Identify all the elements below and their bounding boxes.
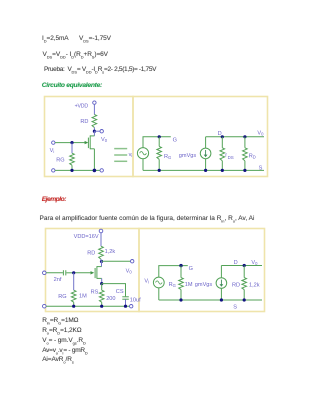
frame box 2 left (amplificador fuente comun): [46, 229, 140, 312]
wire CS to bottom rail: [125, 299, 127, 306]
result line 3: [42, 337, 86, 345]
node bottom source: [93, 169, 97, 173]
wire input to gate node: [55, 142, 72, 144]
resistor RD (circuit 1): [92, 115, 97, 128]
wire D rail (circuit 2 model): [221, 265, 262, 267]
wire RD to drain node: [100, 259, 102, 261]
node bottom vi/RG: [158, 169, 161, 172]
result line 5: [42, 356, 74, 364]
wire Vi plus to G rail: [159, 266, 188, 278]
wire RD to drain node: [93, 128, 95, 132]
wire gmVgs top stub: [205, 137, 207, 148]
svg-text:S: S: [259, 165, 263, 171]
svg-text:V0: V0: [101, 137, 108, 143]
resistor RS: [99, 290, 104, 302]
node drain (circuit 2): [100, 260, 103, 263]
wire bottom rail S (circuit 2 model): [159, 299, 262, 301]
node G (circuit 2 model): [179, 264, 182, 267]
node bottom RG: [72, 305, 75, 308]
wire gate (circuit 2): [74, 272, 92, 274]
svg-text:RG: RG: [164, 154, 171, 160]
wire RS to bottom rail: [101, 302, 103, 306]
svg-text:RD: RD: [87, 250, 95, 256]
wire input to C1: [46, 272, 63, 274]
wire drain node to output terminal: [102, 260, 131, 262]
node bottom RG: [179, 298, 182, 301]
svg-text:V0: V0: [257, 130, 264, 136]
terminal V0 output (circuit 1): [100, 130, 103, 133]
frame box 2 right (modelo de pequena senal): [139, 229, 265, 312]
wire drain: [101, 261, 103, 266]
terminal bottom left (circuit 1): [52, 169, 55, 172]
wire VDD to RD: [100, 233, 102, 246]
svg-text:Vi: Vi: [144, 279, 149, 285]
source Vi (circuit 2 model): [153, 277, 164, 288]
result line 1: [42, 317, 78, 325]
svg-text:RG: RG: [58, 294, 66, 300]
node gate (circuit 1): [70, 141, 73, 144]
svg-text:RD: RD: [249, 154, 256, 160]
wire source to ground rail: [93, 149, 95, 171]
wire rDS top stub: [221, 137, 223, 148]
wire RD top stub: [243, 266, 245, 278]
transistor Q1 (NMOS): [88, 135, 94, 149]
terminal bottom left (circuit 2): [43, 304, 47, 308]
svg-text:RG: RG: [169, 282, 176, 288]
wire bottom rail (circuit 1): [55, 169, 100, 171]
svg-text:V0: V0: [126, 269, 133, 275]
terminal input (circuit 2): [43, 271, 47, 275]
dependent source gmVgs (circuit 1 model): [200, 148, 211, 159]
node D RD: [243, 135, 246, 138]
svg-text:RS: RS: [91, 289, 99, 295]
svg-text:+VDD: +VDD: [75, 104, 89, 110]
node gmVgs bottom: [204, 169, 207, 172]
svg-text:RD: RD: [232, 282, 240, 288]
resistor rDS: [220, 148, 225, 161]
svg-text:vi: vi: [129, 152, 133, 158]
wire RG to bottom rail: [71, 165, 73, 170]
wire C1 to gate node: [66, 272, 73, 274]
wire gmVgs bottom stub: [220, 288, 222, 300]
wire RG bottom stub: [158, 159, 160, 170]
node bottom RG: [70, 169, 73, 172]
wire gmVgs bottom stub: [205, 159, 207, 171]
terminal Vi input (circuit 1): [52, 141, 55, 144]
node source (circuit 2): [100, 282, 103, 285]
text line 1a: [42, 35, 69, 43]
svg-text:1M: 1M: [185, 282, 193, 288]
wire RG bottom stub: [180, 290, 182, 300]
resistor RG (circuit 2): [71, 290, 76, 302]
wire gmVgs top stub to D rail: [220, 266, 222, 278]
svg-text:S: S: [233, 305, 237, 311]
svg-text:CS: CS: [116, 289, 124, 295]
wire gate (circuit 1): [72, 142, 86, 144]
terminal V0 (circuit 2): [131, 260, 134, 263]
svg-text:D: D: [234, 260, 238, 266]
resistor RD (circuit 2): [99, 246, 104, 259]
frame box 1 right (modelo de pequena senal): [133, 97, 268, 177]
wire drain: [93, 131, 95, 136]
wire rDS bottom stub: [221, 161, 223, 171]
node D RD: [243, 264, 246, 267]
text line 1b: [79, 35, 111, 43]
result line 2: [42, 327, 81, 335]
svg-text:200: 200: [106, 296, 115, 302]
node drain/output (circuit 1): [93, 130, 96, 133]
wire source node to CS: [102, 284, 126, 297]
svg-text:VDD=16V: VDD=16V: [74, 234, 99, 240]
text line 2: [43, 51, 108, 59]
terminal VDD (circuit 2): [99, 229, 103, 233]
heading Ejemplo: [42, 196, 66, 204]
node RD bottom: [243, 169, 246, 172]
resistor RD (circuit 1 model): [243, 148, 248, 161]
wire RD bottom stub: [244, 161, 246, 171]
heading Circuito equivalente: [42, 82, 102, 90]
wire gate node to RG: [73, 273, 75, 290]
terminal bottom right (circuit 2): [130, 305, 133, 308]
node rDS bottom: [221, 169, 224, 172]
resistor RG (circuit 1 model): [157, 146, 162, 159]
capacitor CS: [122, 297, 129, 299]
svg-text:RG: RG: [56, 157, 64, 163]
resistor RG (circuit 2 model): [179, 278, 184, 290]
wire gate node to RG: [71, 143, 73, 154]
node bottom RS: [100, 305, 103, 308]
wire RG top stub: [180, 266, 182, 278]
dependent source gmVgs (circuit 2 model): [216, 278, 227, 289]
wire RG to bottom rail: [73, 302, 75, 306]
wire VDD to RD: [93, 104, 95, 114]
svg-text:RD: RD: [80, 119, 88, 125]
svg-text:DS: DS: [228, 155, 234, 160]
wire source: [101, 278, 103, 283]
node bottom CS: [124, 305, 127, 308]
equivalence sign: [114, 149, 127, 162]
svg-text:G: G: [173, 138, 177, 144]
resistor RG (circuit 1): [70, 153, 75, 165]
wire bottom rail S (circuit 1 model): [143, 169, 264, 171]
wire Vi minus to bottom rail: [158, 288, 160, 300]
svg-text:Vi: Vi: [50, 148, 55, 154]
node RD bottom: [243, 298, 246, 301]
capacitor C1 2nf: [63, 270, 65, 275]
svg-text:2nf: 2nf: [54, 277, 62, 283]
wire source node to RS: [101, 284, 103, 291]
node D rDS: [221, 135, 224, 138]
frame box 1 left (circuito equivalente, esquema): [45, 97, 134, 177]
node gmVgs bottom: [220, 298, 223, 301]
gate arrowhead: [85, 141, 89, 144]
svg-text:10uf: 10uf: [130, 297, 141, 303]
wire RG top stub: [158, 137, 160, 147]
svg-text:gmVgs: gmVgs: [179, 153, 197, 159]
svg-text:gmVgs: gmVgs: [195, 282, 213, 288]
wire D rail (circuit 1 model): [206, 136, 264, 138]
node G top: [158, 135, 161, 138]
text line Para el amplificador: [40, 215, 255, 223]
result line 4: [42, 347, 87, 355]
resistor RD (circuit 2 model): [242, 278, 247, 290]
svg-text:V0: V0: [251, 260, 258, 266]
wire bottom rail (circuit 2): [46, 305, 129, 307]
wire vi minus to bottom rail: [142, 159, 144, 171]
wire RD top stub: [244, 137, 246, 148]
svg-text:1M: 1M: [79, 293, 87, 299]
terminal bottom right (circuit 1): [100, 169, 103, 172]
svg-text:G: G: [189, 266, 193, 272]
gate arrowhead: [91, 271, 95, 274]
svg-text:1,2k: 1,2k: [249, 282, 260, 288]
svg-text:1,2k: 1,2k: [105, 249, 116, 255]
wire vi plus to G rail: [143, 137, 171, 148]
terminal +VDD circuit 1: [93, 101, 96, 104]
wire RD bottom stub: [243, 290, 245, 300]
node gate (circuit 2): [72, 271, 75, 274]
text line 3: [44, 66, 156, 74]
source vi (circuit 1 model): [137, 148, 148, 159]
wire to output terminal: [94, 130, 100, 132]
transistor Q2 (NMOS): [95, 266, 102, 279]
